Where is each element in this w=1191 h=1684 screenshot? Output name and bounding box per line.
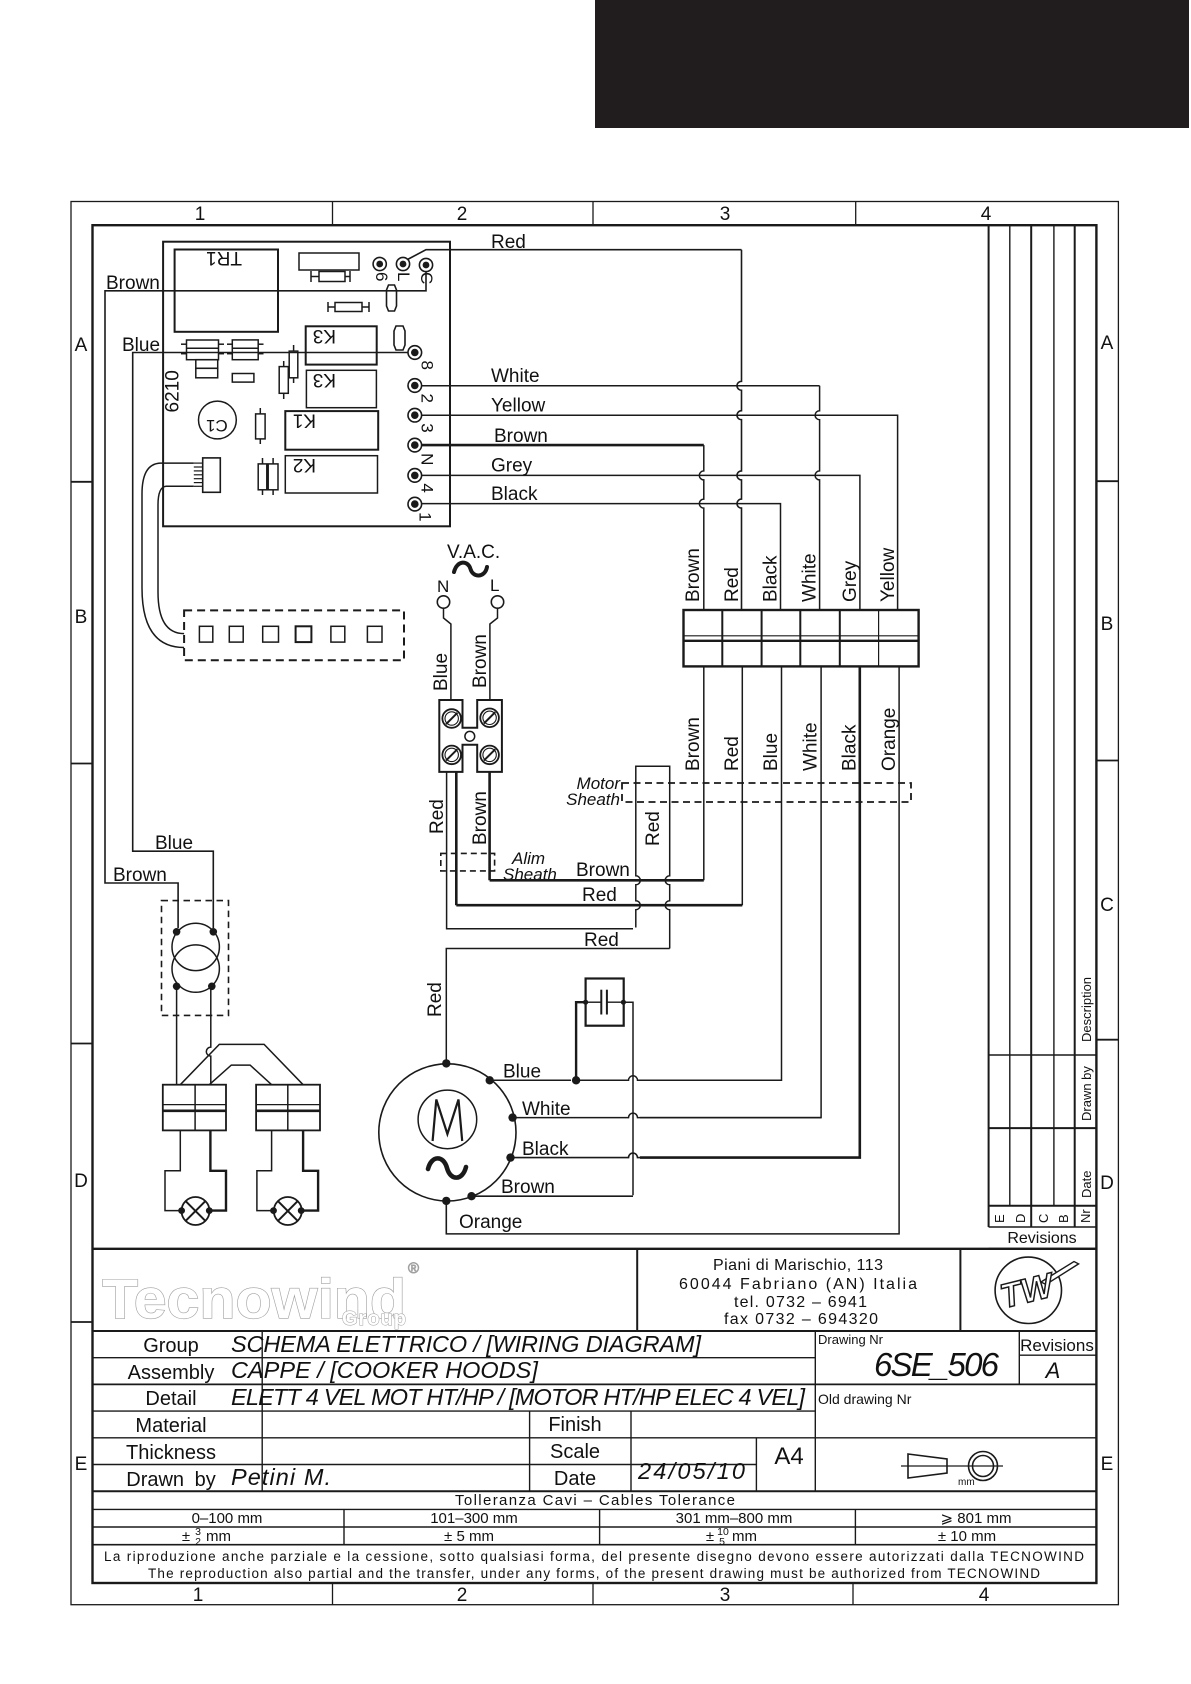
TECNOWIND logo (102, 1260, 419, 1330)
svg-text:Blue: Blue (155, 833, 193, 854)
tolerance table (93, 1508, 1097, 1510)
VAC screw terminal block (439, 700, 502, 772)
ballast bottom-left terminal dot (173, 983, 181, 991)
MAIN TERMINAL BLOCK (684, 610, 919, 666)
relay K1 (285, 411, 378, 450)
switch box 2 (256, 1085, 320, 1131)
screw BL (442, 746, 461, 765)
svg-text:Orange: Orange (459, 1212, 522, 1233)
svg-text:Blue: Blue (503, 1062, 541, 1083)
svg-text:D: D (1013, 1214, 1028, 1223)
svg-text:4: 4 (979, 1585, 990, 1606)
svg-text:ELETT 4 VEL MOT HT/HP / [MOTOR: ELETT 4 VEL MOT HT/HP / [MOTOR HT/HP ELE… (231, 1384, 805, 1410)
svg-text:Red: Red (643, 811, 664, 846)
svg-text:Black: Black (522, 1139, 569, 1160)
wire orange below block to motor (446, 666, 899, 1234)
pad 1 (408, 497, 422, 511)
ballast top-left terminal dot (173, 928, 181, 936)
TW logo (995, 1257, 1078, 1323)
lamp 1 right terminal dot (206, 1207, 213, 1214)
flat component top (299, 253, 359, 270)
wire brown horizontal to block column (thick) (490, 879, 704, 882)
ballast top-right terminal dot (210, 928, 218, 936)
svg-text:A: A (75, 335, 88, 356)
pad 2 (408, 379, 422, 393)
wire: red from pad L over top to terminal block, with hops (408, 250, 742, 610)
stacked boxes under cap1 (196, 360, 218, 369)
motor red terminal dot (442, 1059, 450, 1067)
svg-text:Red: Red (584, 930, 619, 951)
svg-text:E: E (75, 1454, 88, 1475)
svg-text:1: 1 (193, 1585, 204, 1606)
connector hatch (194, 463, 203, 486)
svg-text:fax 0732 – 694320: fax 0732 – 694320 (724, 1311, 878, 1328)
motor M1 outer circle (379, 1064, 516, 1201)
svg-text:Finish: Finish (548, 1414, 601, 1436)
svg-text:±: ± (182, 1528, 190, 1545)
inner trapezoid bridge (209, 1065, 271, 1085)
svg-text:6SE_506: 6SE_506 (874, 1346, 1000, 1383)
capacitor right leg (623, 1002, 633, 1195)
ballast bottom-right terminal dot (208, 983, 216, 991)
screw TL (442, 709, 461, 728)
pad 8 (408, 346, 422, 360)
svg-text:6210: 6210 (163, 370, 184, 412)
svg-text:2: 2 (457, 1585, 468, 1606)
drawing nr / revisions (1018, 1331, 1020, 1384)
capacitor box (586, 979, 624, 1026)
svg-text:Description: Description (1079, 977, 1094, 1042)
svg-text:Red: Red (491, 232, 526, 253)
tolerance texts (192, 1492, 1012, 1545)
wire N blue down (444, 608, 451, 700)
svg-text:60044 Fabriano (AN) Italia: 60044 Fabriano (AN) Italia (679, 1276, 917, 1293)
svg-text:D: D (1100, 1173, 1114, 1194)
wire L brown down (490, 608, 498, 700)
pad C (419, 258, 432, 271)
svg-text:K3: K3 (313, 325, 336, 346)
svg-text:mm: mm (732, 1528, 757, 1545)
lamp 2 left terminal dot (270, 1207, 277, 1214)
svg-text:Red: Red (722, 567, 743, 602)
motor sine symbol (428, 1158, 466, 1177)
svg-text:Assembly: Assembly (128, 1362, 215, 1384)
svg-text:Date: Date (1079, 1171, 1094, 1198)
svg-text:Piani di Marischio, 113: Piani di Marischio, 113 (713, 1257, 883, 1274)
svg-text:Red: Red (582, 885, 617, 906)
capacitor C left terminal dot (583, 1000, 588, 1005)
svg-text:Blue: Blue (431, 653, 452, 691)
outer border (71, 202, 1118, 1605)
finish/scale/date columns (529, 1411, 531, 1491)
red U bridge over wires (636, 766, 670, 948)
switch box 1 (163, 1085, 226, 1131)
svg-text:Yellow: Yellow (491, 396, 546, 417)
scan header black bar (595, 0, 1189, 128)
svg-text:®: ® (408, 1260, 419, 1277)
svg-text:Brown: Brown (470, 791, 491, 845)
svg-text:La riproduzione anche parziale: La riproduzione anche parziale e la cess… (104, 1549, 1084, 1564)
svg-text:Thickness: Thickness (126, 1442, 216, 1464)
svg-text:2: 2 (457, 204, 468, 225)
right row ticks (1096, 480, 1118, 482)
wire blue motor (hop over cap leg) (490, 1079, 571, 1081)
connector square 2 (229, 626, 243, 642)
wire brown below block to VAC (703, 666, 705, 880)
svg-text:± 5 mm: ± 5 mm (444, 1528, 494, 1545)
Alim Sheath label (503, 849, 557, 884)
svg-text:± 10 mm: ± 10 mm (938, 1528, 996, 1545)
wire: white pad2 (422, 386, 820, 610)
svg-text:Brown: Brown (494, 426, 548, 447)
screw TR (480, 709, 499, 728)
svg-text:Revisions: Revisions (1020, 1336, 1094, 1355)
svg-text:White: White (800, 553, 821, 602)
relay K3 upper (306, 326, 377, 364)
svg-text:E: E (1101, 1454, 1114, 1475)
inner border (93, 225, 1097, 1583)
logo band dividers (636, 1249, 638, 1331)
svg-text:Detail: Detail (145, 1388, 196, 1410)
svg-text:4: 4 (981, 204, 992, 225)
labels below terminal block (rotated) (683, 708, 900, 771)
svg-text:Revisions: Revisions (1007, 1230, 1076, 1247)
svg-text:A4: A4 (774, 1443, 803, 1470)
svg-text:Brown: Brown (106, 273, 160, 294)
motor inner circle (418, 1090, 477, 1149)
svg-text:N: N (418, 453, 437, 465)
vertical resistors r2 r3 (pair) (258, 458, 278, 495)
wire white motor (513, 1113, 822, 1118)
connector square 3 (263, 626, 279, 642)
svg-text:Drawn by: Drawn by (126, 1469, 215, 1491)
svg-text:2: 2 (195, 1536, 201, 1548)
vertical resistor r4 (289, 345, 298, 383)
wire red horizontal to block column (thick) (456, 904, 742, 907)
labels above terminal block (rotated) (683, 547, 899, 602)
board connector (203, 458, 221, 492)
V.A.C. sine symbol (454, 563, 487, 576)
capacitor left leg (thick) (576, 1002, 586, 1080)
wire red lower horizontal to motor (446, 949, 669, 1061)
svg-text:1: 1 (416, 512, 435, 521)
svg-text:N: N (437, 577, 449, 596)
small rect component (232, 374, 254, 383)
svg-text:White: White (522, 1099, 571, 1120)
lamp 2 wires (257, 1130, 274, 1210)
svg-text:Date: Date (554, 1468, 596, 1490)
TITLE BLOCK (93, 1249, 1097, 1545)
capacitor plates (586, 990, 624, 1015)
address (679, 1257, 917, 1328)
svg-text:C: C (1036, 1214, 1051, 1223)
svg-text:Material: Material (135, 1415, 206, 1437)
wire: brown from pad C to left edge and down (105, 272, 426, 928)
left row ticks (71, 481, 93, 483)
first-angle projection symbol (901, 1452, 1003, 1481)
svg-text:Red: Red (427, 799, 448, 834)
svg-text:Sheath: Sheath (566, 790, 620, 809)
svg-text:B: B (75, 607, 88, 628)
svg-text:Yellow: Yellow (878, 547, 899, 602)
svg-text:C1: C1 (206, 416, 228, 435)
svg-text:Brown: Brown (470, 634, 491, 688)
svg-text:K2: K2 (293, 454, 316, 475)
pad 6 (373, 257, 386, 270)
outer trapezoid bridge (180, 1044, 303, 1084)
transformer TR1 (175, 250, 278, 332)
capacitor C1 (199, 401, 237, 439)
wire: brown pad N (thick) (422, 445, 704, 610)
wire: grey pad4 (422, 475, 860, 610)
svg-text:Orange: Orange (879, 708, 900, 771)
film capacitor 2 (227, 340, 264, 360)
diode hexagon 1 (387, 285, 397, 311)
relay K2 (285, 456, 377, 493)
svg-text:Tolleranza Cavi – Cables Toler: Tolleranza Cavi – Cables Tolerance (455, 1492, 735, 1509)
svg-text:Brown: Brown (501, 1177, 555, 1198)
svg-text:4: 4 (418, 483, 437, 492)
pad 4 (408, 469, 422, 483)
svg-text:Brown: Brown (683, 548, 704, 602)
relay K3 lower (306, 370, 376, 407)
connector square 1 (199, 626, 212, 642)
svg-text:2: 2 (418, 394, 437, 403)
motor blue terminal dot (486, 1076, 494, 1084)
wire ballast right down to switch1 (hop over trapezoid) (206, 986, 211, 1084)
svg-text:Nr: Nr (1078, 1209, 1093, 1223)
lamp 1 left terminal dot (178, 1207, 185, 1214)
svg-text:Black: Black (491, 484, 538, 505)
svg-text:8: 8 (418, 361, 437, 370)
wire blue below block to motor (640, 666, 782, 1080)
top column ticks (332, 202, 334, 226)
junction dot blue/cap (572, 1076, 580, 1084)
svg-text:L: L (490, 576, 499, 595)
connector square 5 (331, 626, 345, 642)
svg-text:C: C (1100, 895, 1114, 916)
wire white below block to motor (640, 666, 821, 1117)
svg-text:Red: Red (722, 736, 743, 771)
wire red below block to VAC (741, 666, 743, 905)
lamp connector dashed box (184, 610, 404, 660)
lamp 1 (182, 1197, 210, 1225)
svg-text:White: White (491, 366, 540, 387)
Motor Sheath label (566, 774, 621, 809)
svg-text:Black: Black (761, 555, 782, 602)
svg-text:V.A.C.: V.A.C. (447, 542, 500, 563)
wire brown motor to cap leg (472, 1195, 634, 1197)
lamp 2 right terminal dot (298, 1207, 305, 1214)
svg-text:Group: Group (342, 1308, 407, 1330)
connector square 4 (296, 626, 312, 642)
main rows (93, 1357, 816, 1359)
wire orange motor (445, 1201, 447, 1234)
svg-text:5: 5 (719, 1536, 725, 1548)
svg-text:3: 3 (418, 423, 437, 432)
Alim sheath dashed box (441, 853, 495, 871)
svg-text:K3: K3 (313, 369, 336, 390)
svg-text:0–100 mm: 0–100 mm (192, 1510, 263, 1527)
svg-text:Drawing Nr: Drawing Nr (818, 1332, 884, 1347)
resistor R-b (328, 302, 369, 312)
svg-text:3: 3 (720, 204, 731, 225)
svg-text:Petini M.: Petini M. (231, 1464, 331, 1490)
svg-text:The reproduction also partial: The reproduction also partial and the tr… (148, 1566, 1040, 1581)
pad number labels 8 2 3 N 4 1 (416, 361, 437, 522)
svg-text:Brown: Brown (683, 717, 704, 771)
bottom column ticks (332, 1583, 334, 1605)
svg-text:Old drawing Nr: Old drawing Nr (818, 1391, 912, 1407)
svg-text:TR1: TR1 (206, 247, 242, 268)
svg-text:K1: K1 (293, 410, 316, 431)
svg-text:A: A (1044, 1358, 1061, 1383)
wire black motor (511, 1153, 860, 1158)
svg-text:mm: mm (958, 1477, 975, 1488)
wire red thick below VAC block (455, 772, 458, 905)
wire: yellow pad3 (422, 415, 898, 610)
pad L (396, 257, 409, 270)
svg-text:tel. 0732 – 6941: tel. 0732 – 6941 (734, 1294, 867, 1311)
svg-text:101–300 mm: 101–300 mm (430, 1510, 518, 1527)
motor black terminal dot (506, 1153, 514, 1161)
svg-text:B: B (1056, 1214, 1071, 1223)
svg-text:1: 1 (195, 204, 206, 225)
svg-text:CAPPE / [COOKER HOODS]: CAPPE / [COOKER HOODS] (231, 1357, 538, 1383)
connector square 6 (367, 626, 382, 642)
wire brown thick below VAC block (488, 772, 491, 880)
svg-text:Red: Red (425, 982, 446, 1017)
svg-text:±: ± (706, 1528, 714, 1545)
svg-text:Drawn by: Drawn by (1079, 1066, 1094, 1121)
REVISION TABLE (right strip) (989, 225, 1097, 1249)
svg-text:Group: Group (143, 1335, 199, 1357)
svg-text:L: L (394, 272, 413, 281)
ribbon cable to lamp connector (142, 463, 194, 647)
svg-text:D: D (74, 1171, 88, 1192)
svg-text:mm: mm (206, 1528, 231, 1545)
wire ballast left down to switch1 (176, 986, 178, 1084)
svg-text:Black: Black (840, 724, 861, 771)
lamp 1 wires (165, 1130, 182, 1210)
resistor R-a (311, 271, 350, 282)
capacitor C right terminal dot (621, 1000, 626, 1005)
ballast transformer circles (172, 923, 219, 970)
label column (261, 1331, 263, 1491)
pad 3 (408, 408, 422, 422)
motor orange terminal dot (442, 1197, 450, 1205)
svg-text:Blue: Blue (122, 335, 160, 356)
lamp 2 (274, 1197, 302, 1225)
vertical resistor r5 (279, 361, 288, 399)
svg-text:Grey: Grey (491, 456, 533, 477)
wire red thin below VAC block (447, 772, 633, 929)
svg-text:Scale: Scale (550, 1441, 600, 1463)
svg-text:White: White (801, 722, 822, 771)
logo band bottom (93, 1330, 1097, 1332)
svg-text:A: A (1101, 333, 1114, 354)
motor M letter (433, 1100, 463, 1142)
lamp ballast dashed box (162, 901, 229, 1016)
svg-text:Grey: Grey (840, 560, 861, 602)
svg-text:SCHEMA ELETTRICO / [WIRING DIA: SCHEMA ELETTRICO / [WIRING DIAGRAM] (231, 1331, 701, 1357)
motor brown terminal dot (467, 1192, 475, 1200)
motor white terminal dot (508, 1113, 516, 1121)
svg-text:3: 3 (720, 1585, 731, 1606)
vertical resistor r1 (256, 408, 266, 444)
svg-text:E: E (992, 1214, 1007, 1223)
svg-text:Brown: Brown (576, 860, 630, 881)
Motor sheath dashed box (622, 783, 911, 802)
diode hexagon 2 (394, 326, 405, 350)
screw BR (480, 746, 499, 765)
svg-text:Blue: Blue (761, 733, 782, 771)
svg-text:⩾ 801 mm: ⩾ 801 mm (941, 1510, 1012, 1527)
svg-text:Brown: Brown (113, 865, 167, 886)
svg-text:B: B (1101, 614, 1114, 635)
wire black below block to motor (thick) (640, 666, 860, 1157)
svg-text:6: 6 (372, 272, 391, 281)
wire: blue from pad 8 to left and down (133, 353, 408, 929)
PCB outline (163, 242, 450, 527)
wire: black pad1 (422, 504, 781, 610)
film capacitor 1 (181, 340, 224, 360)
pad N (408, 438, 422, 452)
svg-text:301 mm–800 mm: 301 mm–800 mm (676, 1510, 793, 1527)
